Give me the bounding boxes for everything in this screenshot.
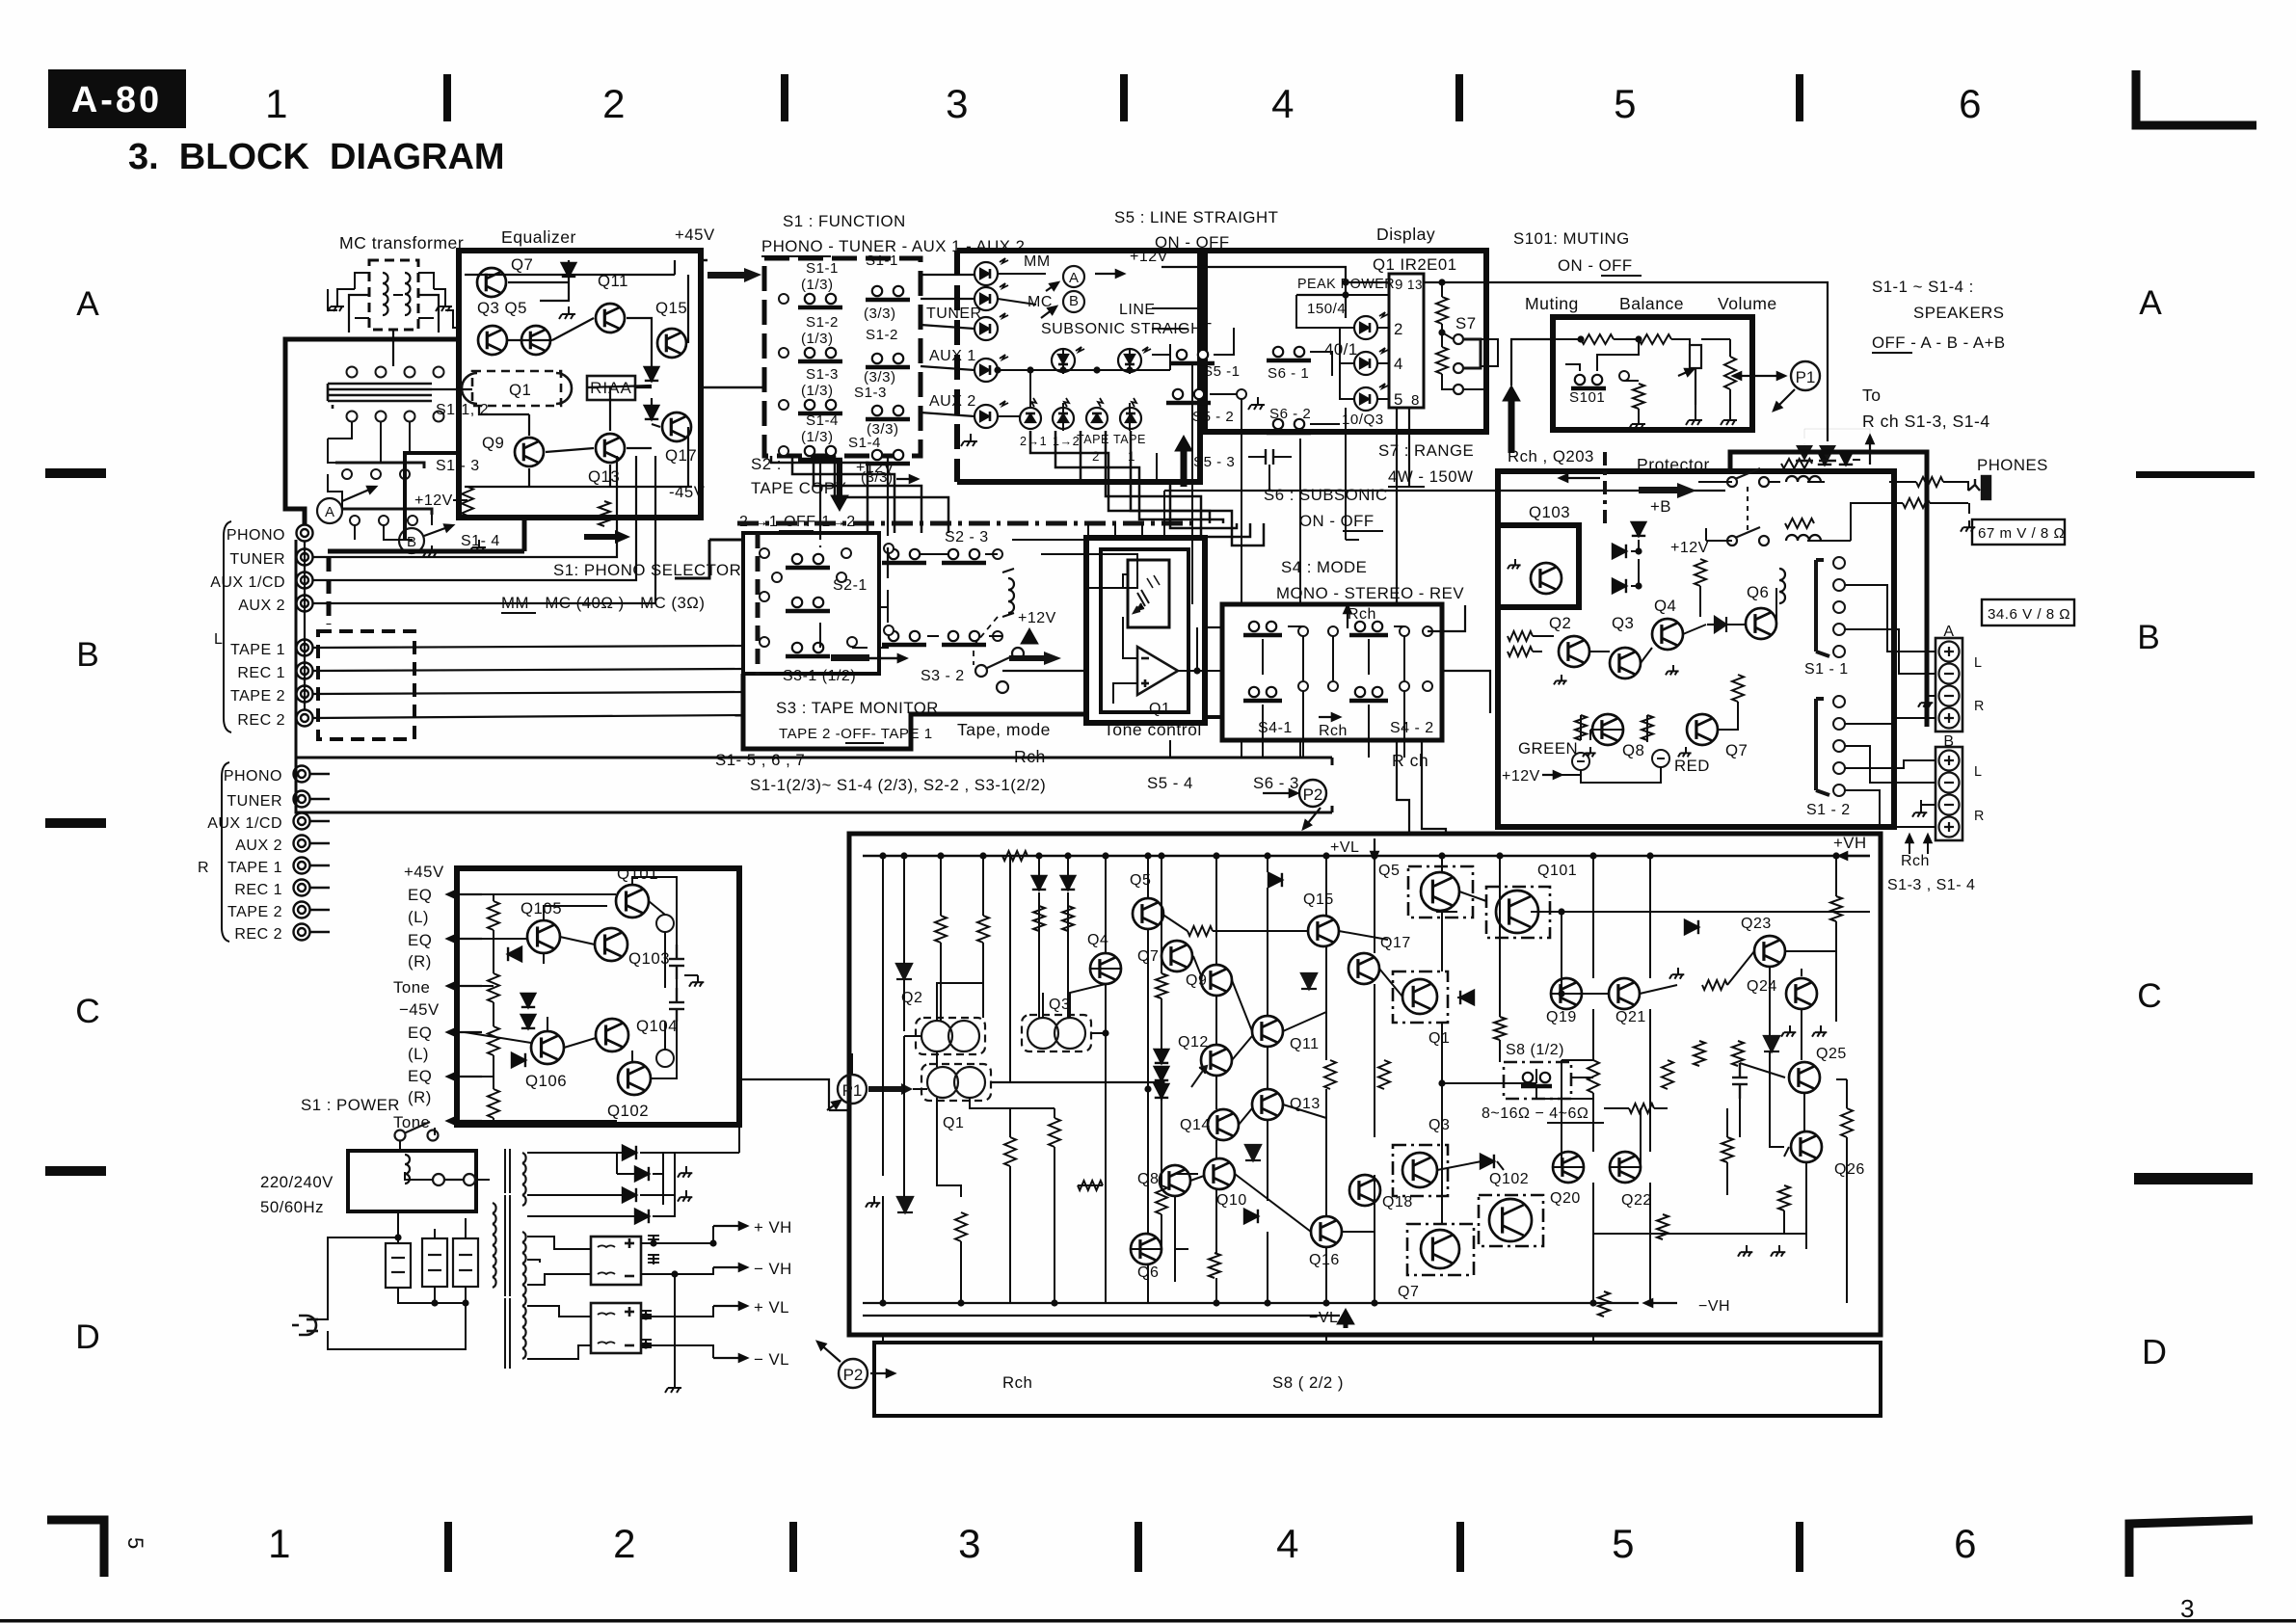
S2-3 contacts extra	[884, 544, 1002, 641]
transistor Q18 amp	[1349, 1175, 1380, 1206]
transformer sec 1	[522, 1153, 526, 1206]
transistor Q4 protector	[1652, 619, 1683, 650]
svg-text:S1-1: S1-1	[866, 253, 898, 269]
connector input jack L AUX 2	[297, 596, 313, 612]
arrow ps arrow 1071	[447, 1028, 482, 1035]
svg-text:Tone: Tone	[393, 1113, 430, 1131]
bottom page edge line	[0, 1619, 2296, 1623]
svg-text:A-80: A-80	[71, 80, 162, 120]
thick bus arrow	[584, 530, 630, 544]
diode amp D q20	[1481, 1155, 1494, 1168]
transistor Q103 ps	[595, 928, 627, 961]
svg-text:4: 4	[1271, 81, 1295, 126]
wire muting wiring	[1553, 339, 1730, 416]
switch contact S6-1	[1267, 347, 1311, 360]
resistor ps res4	[488, 1089, 499, 1118]
svg-text:TUNER: TUNER	[926, 306, 982, 322]
svg-text:R: R	[198, 860, 209, 876]
left edge bar 2	[45, 818, 106, 828]
svg-text:Q7: Q7	[511, 255, 533, 274]
tone control inner box	[1101, 549, 1188, 712]
svg-text:P1: P1	[1796, 368, 1816, 386]
svg-text:TAPE COPY: TAPE COPY	[751, 479, 846, 497]
output Q1 dash box	[1393, 971, 1448, 1023]
resistor prot res1	[1695, 559, 1706, 586]
grid tick bottom 1	[444, 1522, 452, 1572]
arrow S1 down arrow	[831, 463, 848, 511]
arrow ps arrow 1117	[447, 1073, 482, 1079]
svg-text:S1- 5 , 6 , 7: S1- 5 , 6 , 7	[715, 751, 805, 769]
ground	[1686, 412, 1702, 425]
wire R channel band outline	[296, 540, 1332, 812]
svg-text:REC 2: REC 2	[234, 926, 282, 943]
resistor display res2	[1436, 347, 1448, 374]
output Q7 dash box	[1407, 1224, 1474, 1275]
S3-1 extra contacts	[760, 637, 857, 647]
diode rect D2	[635, 1167, 649, 1181]
svg-text:S1-1 ~ S1-4 :: S1-1 ~ S1-4 :	[1872, 278, 1974, 296]
transistor Q15	[657, 329, 686, 358]
model label A-80 black box	[48, 69, 186, 128]
transformer core	[505, 1149, 510, 1369]
ground	[1912, 806, 1927, 817]
diode amp D mid	[1268, 873, 1282, 887]
transistor Q26 amp	[1791, 1131, 1822, 1162]
diode D prot1	[1613, 545, 1626, 558]
resistor amp r11	[1830, 896, 1842, 921]
svg-text:R ch S1-3, S1-4: R ch S1-3, S1-4	[1862, 412, 1990, 431]
wire stub R AUX 1/CD	[310, 820, 330, 823]
transistor Q4 amp	[1090, 953, 1121, 984]
svg-text:(1/3): (1/3)	[801, 383, 834, 399]
svg-text:Q4: Q4	[1654, 597, 1676, 615]
transistor Q11 amp	[1252, 1016, 1283, 1047]
svg-text:RED: RED	[1674, 757, 1710, 775]
svg-text:S1-1: S1-1	[806, 260, 839, 277]
relay contact 2	[1727, 527, 1769, 545]
svg-text:S8 ( 2/2 ): S8 ( 2/2 )	[1272, 1373, 1344, 1392]
LED AUX1	[974, 355, 1008, 382]
terminal B circle	[399, 528, 424, 553]
svg-text:Q15: Q15	[1303, 891, 1334, 908]
wire amp feedback	[1442, 1023, 1536, 1083]
ps small circle1	[656, 915, 674, 932]
resistor balance res	[1639, 334, 1671, 344]
arrow s3 arrow right	[868, 654, 906, 661]
switch contact S3-2 a	[882, 631, 926, 645]
svg-text:S5 - 4: S5 - 4	[1147, 774, 1193, 792]
ground	[423, 545, 438, 557]
LED TUNER	[974, 313, 1008, 340]
svg-text:1: 1	[268, 1521, 291, 1566]
resistor amp r2	[977, 916, 989, 943]
selector switch S1-3 contacts	[335, 463, 424, 479]
svg-text:Q101: Q101	[617, 865, 658, 883]
svg-text:Q5: Q5	[1378, 863, 1400, 879]
switch contact S4-2 a	[1349, 622, 1388, 635]
svg-text:Q16: Q16	[1309, 1252, 1340, 1268]
svg-text:Q105: Q105	[521, 899, 562, 918]
svg-text:PHONO: PHONO	[224, 768, 282, 785]
amp zener3	[1301, 973, 1317, 989]
svg-text:P2: P2	[843, 1366, 864, 1384]
svg-text:Q20: Q20	[1550, 1190, 1581, 1207]
svg-text:Q3 Q5: Q3 Q5	[477, 299, 527, 317]
ground	[1629, 416, 1645, 429]
LED peak LED3	[1354, 384, 1388, 411]
ground	[1554, 675, 1567, 684]
LED AUX2	[974, 401, 1008, 428]
LED peak LED1	[1354, 312, 1388, 339]
connector input jack L TAPE 2	[297, 686, 313, 703]
resistor amp r15	[1657, 1214, 1669, 1239]
S8 dash box	[1504, 1062, 1571, 1099]
svg-text:2: 2	[613, 1521, 636, 1566]
svg-text:Q11: Q11	[1290, 1036, 1320, 1052]
transistor Q14 amp	[1208, 1109, 1239, 1140]
svg-text:Q7: Q7	[1398, 1284, 1419, 1300]
svg-text:− VL: − VL	[754, 1350, 789, 1369]
svg-text:4W - 150W: 4W - 150W	[1388, 467, 1473, 486]
resistor amp r7	[1209, 1253, 1220, 1278]
transistor Q24 amp	[1786, 978, 1817, 1009]
wire long feeds into amp	[1397, 453, 1446, 836]
wire subsonic stair right	[1088, 523, 1142, 540]
svg-text:(L): (L)	[408, 1045, 429, 1063]
svg-text:2: 2	[1394, 320, 1403, 338]
wire ps wiring	[465, 877, 698, 1121]
transistor Q102 output	[1489, 1199, 1532, 1241]
svg-text:L: L	[214, 631, 223, 648]
wire eq ps to amp link	[739, 1079, 849, 1110]
connector input jack L AUX 1/CD	[297, 572, 313, 589]
inductor MC coil R	[405, 273, 411, 315]
svg-text:TUNER: TUNER	[227, 793, 282, 810]
svg-text:(L): (L)	[408, 908, 429, 926]
svg-text:S5 -1: S5 -1	[1203, 363, 1241, 380]
svg-text:S1 - 3: S1 - 3	[436, 458, 480, 474]
svg-text:TUNER: TUNER	[229, 551, 285, 568]
transistor Q16 amp	[1311, 1216, 1342, 1247]
svg-text:Q103: Q103	[628, 949, 670, 968]
svg-text:GREEN: GREEN	[1518, 739, 1578, 758]
arrow s4 arrow	[1344, 605, 1350, 628]
wire rect wiring	[527, 1120, 739, 1216]
wire amp right cols	[1442, 856, 1836, 1303]
svg-text:3: 3	[946, 81, 969, 126]
svg-text:Q13: Q13	[1290, 1096, 1321, 1112]
wire stub R TAPE 1	[310, 865, 330, 867]
svg-text:Equalizer: Equalizer	[501, 227, 576, 247]
underline OFF tapemon	[845, 742, 884, 744]
wire L aux2 bus	[313, 456, 655, 603]
svg-text:− VH: − VH	[754, 1260, 792, 1278]
ground	[961, 434, 977, 446]
switch contact S2-1 b	[786, 598, 830, 611]
arrow out of P2	[1303, 808, 1321, 829]
box 34.6V	[1982, 599, 2074, 625]
ground	[1678, 747, 1692, 757]
diode amp D 3stack c	[1155, 1084, 1168, 1098]
grid tick top 1	[443, 74, 451, 121]
svg-text:LINE: LINE	[1119, 302, 1156, 318]
svg-text:S1 - 2: S1 - 2	[1806, 802, 1851, 818]
output Q102 dash box	[1479, 1195, 1543, 1246]
svg-text:Rch: Rch	[1901, 853, 1930, 869]
wire relay link dashes	[1747, 487, 1749, 530]
wire L aux1 bus	[313, 456, 636, 580]
display box	[1205, 251, 1486, 432]
switch contact S8 contact	[1521, 1073, 1552, 1086]
LED indicator box	[957, 251, 1200, 482]
resistor amp r12	[1694, 1041, 1705, 1066]
grid tick top 2	[781, 74, 788, 121]
diode ps D1	[508, 947, 521, 961]
svg-text:Q103: Q103	[1529, 503, 1570, 521]
transistor Q101 ps	[616, 885, 649, 918]
S4 extra contacts	[1298, 626, 1432, 691]
svg-text:3: 3	[2180, 1594, 2194, 1623]
svg-text:Q10: Q10	[1216, 1192, 1247, 1209]
wire amp horizontals	[1078, 891, 1870, 1249]
svg-text:AUX 1/CD: AUX 1/CD	[207, 815, 282, 832]
switch contact S1-2 left contact	[798, 348, 842, 361]
wire phono input thick feed	[285, 339, 459, 524]
diode amp D 3stack	[1155, 1050, 1168, 1063]
wire s6 cap drop	[1269, 451, 1300, 492]
resistor amp r3	[1049, 1118, 1060, 1147]
svg-text:S1-3: S1-3	[854, 385, 887, 401]
transistor Q106	[531, 1031, 564, 1064]
arrow arrow to A	[1046, 282, 1058, 291]
wire phones wiring	[1769, 460, 1969, 541]
switch contact S1-2 right contact	[866, 354, 910, 367]
transistor Q105	[527, 920, 560, 953]
resistor amp rx2	[1156, 1185, 1167, 1214]
wire S1 lower staircase 3	[814, 456, 921, 533]
svg-text:B: B	[1943, 733, 1954, 750]
svg-text:EQ: EQ	[408, 1024, 432, 1042]
muting extra contact	[1619, 371, 1629, 381]
arrow rch up arrow1	[1906, 835, 1912, 854]
svg-text:AUX 1/CD: AUX 1/CD	[210, 574, 285, 591]
svg-text:6: 6	[1954, 1521, 1977, 1566]
transistor Q6 amp	[1131, 1234, 1161, 1264]
svg-text:AUX 2: AUX 2	[238, 598, 285, 614]
wire mid region bus 2	[1041, 554, 1137, 588]
svg-text:B: B	[1069, 293, 1079, 309]
transistor Q9	[515, 438, 544, 466]
arrow P2 right arrow	[870, 1370, 894, 1376]
speaker switch S1-2	[1816, 696, 1845, 796]
arrow +12v arrow	[1095, 270, 1124, 277]
P1 feed arrow	[868, 1086, 901, 1092]
arrow ps arrow 974	[447, 935, 482, 942]
wire S4 to right feeds	[1428, 605, 1490, 713]
svg-text:Q17: Q17	[665, 446, 697, 465]
selector switch S1-1,2 contacts	[328, 367, 444, 422]
svg-text:S101: S101	[1569, 389, 1605, 406]
svg-text:EQ: EQ	[408, 886, 432, 904]
arrow s4 arrow2	[1319, 713, 1340, 720]
svg-text:Display: Display	[1376, 225, 1435, 244]
transistor Q17 amp	[1348, 953, 1379, 984]
transformer primary	[493, 1203, 496, 1288]
arrow sel arrow B	[424, 524, 453, 536]
svg-text:3: 3	[958, 1521, 981, 1566]
connector input jack R TAPE 2	[294, 902, 310, 918]
switch contact S1-4 left contact	[798, 446, 842, 460]
LED indicator box left edge	[954, 251, 960, 482]
P1 input circle	[838, 1075, 867, 1104]
wire display to protector top line	[1424, 282, 1828, 441]
transistor Q6 protector	[1746, 608, 1776, 639]
svg-text:Q1: Q1	[1149, 701, 1170, 717]
dual FET Q1 envelope	[462, 371, 572, 406]
right edge bar 1	[2136, 471, 2255, 478]
wire indicator staircase 4	[1106, 431, 1250, 537]
svg-text:Q14: Q14	[1180, 1117, 1211, 1133]
svg-text:S5 - 3: S5 - 3	[1193, 454, 1235, 470]
svg-text:5: 5	[1394, 390, 1403, 409]
wire equalizer output	[701, 260, 764, 387]
arrow tape +12 arrow	[1021, 628, 1038, 644]
S6-2 capacitor	[1248, 449, 1292, 465]
svg-text:Q1: Q1	[943, 1115, 964, 1131]
LED MM	[974, 258, 1008, 285]
svg-text:REC 1: REC 1	[237, 665, 285, 681]
svg-text:PHONES: PHONES	[1977, 456, 2048, 474]
svg-text:Q22: Q22	[1621, 1192, 1652, 1209]
grid tick top 4	[1455, 74, 1463, 121]
speaker relay diodes	[1796, 445, 1836, 461]
svg-text:(1/3): (1/3)	[801, 429, 834, 445]
box 67mV	[1972, 519, 2065, 545]
transistor Q7 output	[1421, 1230, 1459, 1268]
arrow rail arrow 1315	[713, 1264, 747, 1270]
ground	[665, 1380, 681, 1393]
wire stub R REC 1	[310, 887, 330, 890]
svg-text:R: R	[1974, 699, 1985, 714]
resistor amp rh1	[1002, 851, 1028, 861]
connector input jack R PHONO	[294, 766, 310, 783]
ground	[469, 540, 486, 552]
svg-text:6: 6	[1959, 81, 1982, 126]
underline 4W	[1388, 486, 1425, 488]
svg-text:5: 5	[1612, 1521, 1635, 1566]
transistor Q5 amp	[1133, 898, 1163, 929]
diode ps D3	[521, 1015, 535, 1028]
svg-text:C: C	[2137, 977, 2162, 1015]
svg-text:40/1: 40/1	[1324, 340, 1358, 359]
svg-text:+ VH: + VH	[754, 1218, 792, 1237]
switch contact S4-1 b	[1243, 687, 1282, 701]
connector input jack R TAPE 1	[294, 858, 310, 874]
resistor red res	[1642, 715, 1653, 740]
diode D +B	[1632, 522, 1645, 536]
svg-text:+12V: +12V	[1502, 768, 1540, 785]
arrow to Rch arrow	[1866, 436, 1873, 465]
underline OFF speakers	[1872, 352, 1912, 354]
wire S1 lower staircase 4	[835, 456, 948, 533]
svg-text:A: A	[325, 504, 334, 520]
transistor Q103 protector	[1531, 563, 1562, 594]
svg-text:+VH: +VH	[1833, 834, 1867, 852]
left edge bar 1	[45, 468, 106, 478]
transistor Q101 output	[1496, 891, 1538, 933]
ground	[1666, 665, 1679, 675]
svg-text:S1-3 , S1- 4: S1-3 , S1- 4	[1887, 877, 1975, 893]
wire amp pair tops	[937, 983, 1106, 1033]
resistor prot rin2	[1508, 647, 1533, 656]
svg-text:REC 2: REC 2	[237, 712, 285, 729]
equalizer box	[459, 251, 701, 518]
svg-text:SPEAKERS: SPEAKERS	[1913, 304, 2004, 322]
svg-text:AUX 2: AUX 2	[929, 393, 976, 410]
muting volume box	[1553, 317, 1752, 430]
connector input jack L TUNER	[297, 549, 313, 566]
resistor volume pot	[1724, 357, 1736, 389]
underline STEREO	[1349, 602, 1419, 604]
wire S1 lower staircase 2	[792, 456, 894, 533]
arrow rail arrow 1409	[713, 1354, 747, 1361]
transistor Q25 amp	[1789, 1062, 1820, 1093]
wire stub R PHONO	[310, 773, 330, 776]
svg-text:+VL: +VL	[1330, 839, 1359, 856]
LED subsonic LED	[1052, 347, 1084, 372]
wire L rec2 bus	[313, 715, 743, 718]
ground	[1669, 968, 1684, 979]
connector input jack R TUNER	[294, 791, 310, 808]
diode amp D q17	[1460, 991, 1474, 1004]
wire tone box to S4 thick	[1205, 715, 1222, 719]
svg-text:A: A	[2139, 284, 2162, 322]
ground	[1721, 412, 1737, 425]
bridge rectifier VL	[591, 1303, 641, 1353]
ps cap2	[669, 988, 684, 1022]
svg-text:A: A	[1943, 624, 1954, 640]
wire amp right extra	[1727, 951, 1836, 1249]
resistor amp rx1	[1004, 1137, 1016, 1166]
corner mark top-right	[2136, 70, 2256, 125]
photo resistors	[1134, 575, 1160, 613]
svg-text:220/240V: 220/240V	[260, 1173, 334, 1191]
wire S5 S6 drops to band	[1170, 363, 1300, 758]
svg-text:PHONO: PHONO	[227, 527, 285, 544]
ground	[1771, 1245, 1785, 1257]
svg-text:10/Q3: 10/Q3	[1342, 412, 1384, 428]
contact pin S1-3	[779, 400, 788, 410]
bracket R group	[222, 762, 229, 942]
svg-text:AUX 1: AUX 1	[929, 348, 976, 364]
arrow S5-3 arrow	[1175, 436, 1192, 487]
wire amp q16 line	[1342, 1175, 1375, 1232]
inductor tape coil	[1008, 578, 1014, 613]
diode rect D1	[623, 1146, 636, 1159]
connector input jack R AUX 2	[294, 836, 310, 852]
underline MM	[501, 612, 536, 614]
amp cap1	[1732, 1063, 1748, 1099]
diode rect D4	[635, 1210, 649, 1223]
arrow VL down arrow	[1371, 838, 1377, 860]
wire protector feed line	[1164, 490, 1725, 492]
transistor Q9 amp	[1201, 965, 1232, 996]
LED ind tape2	[1086, 398, 1108, 429]
svg-text:34.6 V / 8 Ω: 34.6 V / 8 Ω	[1988, 606, 2070, 623]
transistor Q8 protector	[1592, 714, 1623, 745]
svg-text:S1-4: S1-4	[806, 412, 839, 429]
svg-text:Volume: Volume	[1718, 294, 1777, 313]
